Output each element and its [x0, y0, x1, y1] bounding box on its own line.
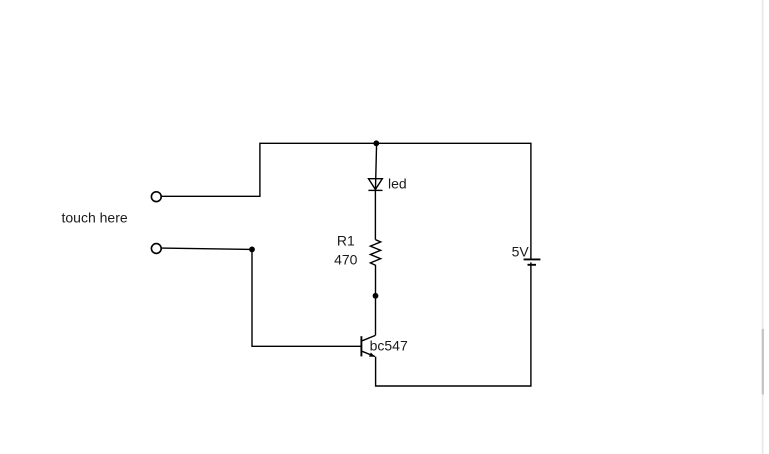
- svg-text:bc547: bc547: [370, 338, 408, 354]
- svg-text:R1: R1: [337, 232, 355, 248]
- svg-text:5V: 5V: [512, 244, 530, 260]
- svg-text:led: led: [388, 176, 407, 192]
- svg-text:470: 470: [334, 251, 358, 267]
- svg-text:touch here: touch here: [62, 210, 128, 226]
